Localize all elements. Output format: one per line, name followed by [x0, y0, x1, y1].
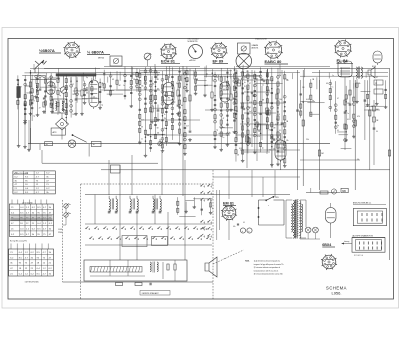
tube V4 body EABC80: [275, 140, 286, 162]
coil L1: [36, 85, 37, 92]
svg-text:25: 25: [269, 130, 271, 132]
svg-text:Ru Oqr Wu LL wq rPm: Ru Oqr Wu LL wq rPm: [10, 240, 27, 243]
svg-text:68: 68: [237, 155, 239, 157]
capacitor C7: [75, 99, 78, 100]
svg-text:LAUTSPR GRAMMOFON: LAUTSPR GRAMMOFON: [352, 234, 374, 237]
rectifier tube side view (top right): [372, 51, 382, 68]
svg-text:380: 380: [342, 190, 347, 193]
components detector region: [236, 78, 283, 143]
table coil data title: [22, 201, 33, 204]
wires detector cluster: [213, 66, 238, 151]
tuning gang C5: [60, 86, 67, 100]
wire r5 top: [76, 75, 82, 90]
box on lower bus: [111, 165, 121, 173]
svg-text:4n7: 4n7: [141, 119, 144, 121]
resistor R2: [29, 100, 31, 105]
svg-text:1n: 1n: [133, 73, 135, 75]
svg-text:120: 120: [302, 87, 305, 89]
wire hlines right of IF strip: [213, 170, 300, 197]
table coil ticks: [12, 200, 47, 205]
tube V4 EABC80 top view: [264, 41, 283, 60]
svg-text:0.1: 0.1: [347, 119, 349, 121]
ground G12: [188, 138, 192, 141]
capacitor C2: [24, 104, 27, 105]
grid cap C4: [43, 98, 45, 99]
power transformer primary: [291, 201, 294, 239]
svg-text:10k: 10k: [133, 79, 136, 81]
electrolytic dark blob left: [17, 80, 21, 147]
resistor R6: [81, 90, 83, 96]
ground G14: [229, 108, 233, 111]
wire em81: [217, 190, 229, 240]
svg-text:220: 220: [238, 83, 241, 85]
tube label half 6B07A (left): [39, 48, 61, 53]
wire c8: [157, 105, 159, 119]
IF amp tube V3 body: [220, 82, 230, 104]
svg-text:4.7k: 4.7k: [257, 136, 260, 138]
svg-text:0.1: 0.1: [157, 79, 159, 81]
svg-text:120: 120: [244, 77, 247, 79]
socket panel title 1: [353, 202, 386, 205]
wire lower bus 2: [101, 169, 390, 171]
svg-text:5p: 5p: [176, 83, 178, 85]
crystal pickup box M8700: [98, 56, 122, 66]
ground G1: [29, 112, 33, 115]
wire risers body to IF strip: [109, 152, 185, 195]
svg-text:220: 220: [240, 143, 243, 145]
svg-text:ECH 81: ECH 81: [161, 59, 176, 64]
wire long vertical B: [302, 70, 304, 186]
el84 screen chain: [349, 80, 352, 120]
tube label half 6B07A (right): [87, 50, 110, 55]
tube V7 6BX4 top view: [321, 254, 337, 270]
resistor R4: [51, 100, 53, 105]
wire v1a anode: [51, 78, 60, 82]
ground G9: [150, 120, 154, 123]
svg-text:25: 25: [273, 149, 275, 151]
volume pot P2: [64, 203, 71, 208]
table coil legend: [10, 240, 27, 243]
table alignment ticks: [11, 244, 48, 250]
resistor R18: [388, 150, 390, 156]
svg-text:10k: 10k: [26, 93, 29, 95]
wire center vertical 1: [154, 64, 156, 76]
padder diamond: [56, 118, 69, 130]
svg-text:L956.: L956.: [331, 291, 341, 296]
svg-text:68: 68: [141, 126, 143, 128]
svg-text:25k: 25k: [306, 139, 309, 141]
svg-text:FERRITE STAB ANT: FERRITE STAB ANT: [142, 292, 160, 295]
mains dots: [258, 207, 259, 217]
wire center vertical long: [182, 66, 184, 196]
svg-text:heizung: heizung: [344, 241, 349, 243]
socket panel 2: [352, 238, 385, 253]
wires RF input cluster: [17, 73, 68, 124]
value label right: [306, 99, 309, 141]
wire ech81 anode: [168, 76, 170, 83]
band switch contacts row 1: [86, 226, 207, 229]
ground G10: [156, 118, 160, 121]
title SCHEMA L956: [326, 286, 347, 296]
wire lower-left bus: [42, 150, 158, 163]
ground G13: [210, 108, 214, 111]
svg-text:1n: 1n: [223, 137, 225, 139]
wires meter drop cluster: [185, 67, 213, 97]
resistor R13: [230, 94, 232, 100]
el84 cathode chain: [344, 96, 350, 150]
mixer grid components: [84, 89, 87, 92]
table coil data dense rows: [10, 216, 52, 221]
svg-text:aMNTvX: aMNTvX: [189, 60, 196, 62]
wire v4: [280, 133, 282, 170]
tube V2 body ECH81: [163, 83, 174, 107]
box above mid bus: [51, 128, 65, 135]
wire osc link: [63, 76, 65, 87]
svg-text:1n: 1n: [347, 113, 349, 115]
svg-text:10k: 10k: [279, 99, 282, 101]
wires mixer cluster: [70, 77, 104, 118]
svg-text:0.05: 0.05: [306, 99, 309, 101]
svg-text:1n: 1n: [332, 86, 334, 88]
svg-text:EF 89: EF 89: [213, 59, 224, 64]
tone pot P3: [64, 212, 71, 217]
IF transformer T1: [108, 196, 118, 213]
rectifier circle symbol: [331, 189, 336, 194]
svg-text:120: 120: [52, 87, 55, 89]
resistor R14: [318, 150, 324, 156]
right column chain: [373, 100, 379, 165]
wires IF stage cluster: [138, 66, 189, 157]
wire drop left to bus: [31, 128, 50, 150]
ground G5: [50, 110, 54, 113]
tube V2 ECH81 top view: [160, 43, 177, 60]
box on mid bus: [92, 141, 102, 146]
svg-text:50: 50: [376, 131, 378, 133]
speaker: [368, 67, 375, 78]
band switch contacts row 2: [90, 236, 211, 239]
wire stubs top area: [34, 64, 366, 89]
tube label ECH 81: [161, 59, 180, 64]
antenna: [35, 60, 47, 73]
ground G2: [23, 121, 27, 124]
table alignment: [9, 249, 54, 276]
value labels right col: [357, 106, 373, 161]
node left rail: [30, 72, 31, 73]
IF transformer T3: [152, 196, 162, 213]
svg-text:5p: 5p: [212, 208, 214, 210]
table voltages: [13, 171, 55, 194]
note text block: [245, 260, 284, 276]
labels near pots: [58, 229, 63, 234]
capacitor C8: [157, 110, 160, 111]
wires bandswitch upper cluster: [103, 66, 138, 107]
svg-text:10k: 10k: [86, 93, 89, 95]
resistor R5: [75, 88, 77, 94]
band switch contacts right column: [201, 184, 212, 237]
resistor R1: [29, 82, 31, 87]
svg-text:47: 47: [223, 118, 225, 120]
tuning meter dial: [189, 45, 203, 63]
svg-text:M8700: M8700: [98, 58, 105, 60]
power transformer core: [294, 199, 298, 238]
scattered value labels: [47, 71, 378, 87]
phono socket box: [238, 43, 259, 54]
wire r8 rail: [151, 76, 153, 120]
wire IF mid rail: [85, 224, 212, 245]
svg-text:4n7: 4n7: [157, 89, 160, 91]
svg-text:5p: 5p: [312, 100, 314, 102]
caption under ferrite: [140, 291, 170, 296]
svg-text:EABC 80: EABC 80: [265, 59, 283, 64]
dashed boundary: [63, 170, 214, 299]
tube V1 6B07A top view: [63, 41, 80, 58]
wire IF verticals: [95, 195, 185, 261]
svg-text:5p: 5p: [216, 130, 218, 132]
svg-text:47: 47: [58, 79, 60, 81]
svg-text:ANSCHL: ANSCHL: [252, 47, 259, 50]
tube V5 body EL84: [338, 61, 352, 77]
svg-text:4n7: 4n7: [249, 111, 252, 113]
wire long vertical C: [319, 70, 321, 190]
tube V1b pentode section: [89, 80, 99, 109]
ground G7: [74, 112, 78, 115]
power transformer secondary: [299, 201, 302, 239]
wire IF strip top rail: [85, 194, 290, 196]
mains loop: [259, 200, 285, 225]
wire bottom bus: [63, 281, 214, 283]
annotation top right: [255, 38, 267, 41]
svg-text:hc: hc: [69, 204, 71, 206]
top right small boxes: [374, 80, 383, 94]
svg-text:68: 68: [326, 83, 328, 85]
wires far right cluster: [355, 79, 387, 110]
wire v3 wires: [212, 76, 231, 108]
svg-text:47: 47: [39, 107, 41, 109]
wire el84: [344, 61, 346, 96]
wire far right rail: [389, 69, 391, 260]
wire left rail: [30, 70, 32, 149]
svg-text:10k: 10k: [286, 140, 289, 142]
resistor R11: [189, 95, 191, 101]
svg-text:1n: 1n: [59, 112, 61, 114]
svg-text:47: 47: [337, 98, 339, 100]
svg-text:47: 47: [256, 79, 258, 81]
ferrite coils inside: [150, 260, 176, 281]
lamp on mid bus: [68, 140, 76, 148]
svg-text:10k: 10k: [141, 85, 144, 87]
schematic border frame: [8, 39, 394, 300]
wire top bus 1: [44, 68, 390, 70]
svg-text:5p: 5p: [86, 77, 88, 79]
IF transformer T2: [129, 196, 139, 213]
svg-text:47n: 47n: [233, 226, 236, 228]
wire 6bx4: [330, 203, 332, 238]
tube label EABC 80: [265, 59, 289, 64]
wires IF strip right cluster: [177, 197, 214, 216]
svg-text:10k: 10k: [152, 84, 155, 86]
svg-text:4n7: 4n7: [181, 105, 184, 107]
left rail bottom: [23, 100, 31, 151]
label EM 81: [223, 202, 236, 206]
svg-text:5p: 5p: [101, 105, 103, 107]
svg-text:EM 81: EM 81: [223, 202, 234, 206]
wire long vertical A: [297, 70, 299, 190]
svg-text:1n: 1n: [164, 114, 166, 116]
wire center vertical 2: [189, 69, 191, 130]
wire chassis step: [81, 144, 89, 157]
svg-text:470: 470: [357, 116, 360, 118]
svg-text:0.1: 0.1: [266, 75, 268, 77]
table coil data: [9, 204, 53, 236]
svg-text:uWr 9M wPrtchMx: uWr 9M wPrtchMx: [25, 280, 39, 283]
svg-text:0.1: 0.1: [279, 130, 281, 132]
switch group box 2: [152, 237, 168, 246]
terminal circles antenna: [35, 75, 45, 77]
resistor R8: [151, 95, 153, 101]
tube V5 EL84 top view: [334, 40, 352, 58]
svg-text:ANSCHLUSSE AB xxL: ANSCHLUSSE AB xxL: [353, 202, 371, 205]
electrolytic capacitors: [240, 228, 252, 233]
svg-text:1n: 1n: [123, 85, 125, 87]
arrow to 6BX4: [342, 241, 353, 245]
label 6BX4: [322, 243, 335, 247]
wire horizontal ties: [30, 67, 388, 161]
resistor R12: [211, 92, 213, 98]
annotation above meter: [188, 38, 199, 43]
mains switch: [266, 196, 275, 201]
svg-text:0.1: 0.1: [243, 222, 245, 224]
wire diamond: [61, 113, 63, 140]
oscillator coil box: [53, 99, 67, 113]
switch S1: [72, 134, 87, 142]
value labels detector region: [238, 83, 280, 150]
ground G6: [62, 108, 66, 111]
svg-text:6k8: 6k8: [376, 109, 379, 111]
tube label EF 89: [213, 59, 229, 64]
svg-text:NORM MITTE: NORM MITTE: [188, 41, 198, 43]
svg-text:47: 47: [144, 83, 146, 85]
wire hv line: [306, 188, 340, 193]
tube V6 EM81 top view: [221, 205, 237, 221]
svg-text:25: 25: [52, 108, 54, 110]
svg-text:GRAMM: GRAMM: [252, 44, 259, 47]
capacitor C3: [39, 89, 42, 90]
wire mesh detector region: [236, 70, 284, 168]
svg-text:1n: 1n: [206, 74, 208, 76]
capacitor C11: [296, 110, 299, 111]
ferrite rod: [90, 267, 142, 273]
power transformer leads: [286, 200, 306, 238]
wires output cluster: [334, 81, 355, 149]
wires driver cluster: [300, 79, 334, 120]
svg-text:1n: 1n: [141, 138, 143, 140]
wire antenna drop: [36, 78, 40, 88]
resistor R10: [177, 90, 179, 96]
wire v1a cathode: [51, 96, 53, 110]
pilot lamps: [305, 227, 318, 233]
resistor R19 hv: [320, 191, 328, 194]
svg-text:4.7k: 4.7k: [249, 102, 252, 104]
svg-text:N.B.: N.B.: [245, 261, 250, 263]
wires AF cluster: [235, 67, 289, 167]
resistor R3: [43, 102, 45, 107]
svg-text:10k: 10k: [358, 83, 361, 85]
resistor R16: [354, 120, 356, 126]
svg-text:47: 47: [249, 83, 251, 85]
svg-text:10k: 10k: [47, 78, 50, 80]
svg-text:½ 6B07A: ½ 6B07A: [87, 50, 104, 55]
svg-text:5p: 5p: [59, 95, 61, 97]
wire top bus 3: [31, 79, 57, 81]
svg-text:1n: 1n: [332, 75, 334, 77]
potentiometer P1: [158, 139, 163, 146]
svg-text:aWNrd SVuFnnM: aWNrd SVuFnnM: [14, 173, 29, 175]
tuning gang symbol: [144, 53, 151, 66]
socket panel 1: [353, 209, 386, 226]
svg-text:6BX4: 6BX4: [322, 243, 331, 247]
trimmer C6: [62, 101, 65, 108]
svg-text:5p: 5p: [286, 79, 288, 81]
output transformer T-out: [356, 67, 362, 79]
tube label EL 84: [337, 58, 354, 63]
speaker cone bottom: [205, 257, 217, 282]
svg-text:0.1: 0.1: [262, 84, 264, 86]
svg-text:½6B07A: ½6B07A: [39, 48, 55, 53]
capacitor C12: [364, 100, 367, 101]
capacitor C9: [177, 105, 180, 106]
capacitor C1: [29, 92, 32, 93]
wire r5 drop: [76, 94, 82, 112]
resistor R15: [302, 120, 304, 126]
label box 380: [341, 188, 348, 193]
capacitor C10: [189, 131, 192, 132]
wire right column: [355, 76, 370, 190]
table alignment title: [25, 280, 39, 283]
svg-text:68: 68: [112, 79, 114, 81]
svg-text:dn: dn: [69, 213, 71, 215]
wire left branch: [25, 86, 31, 120]
wire pot drops: [63, 208, 67, 225]
svg-text:5p: 5p: [33, 116, 35, 118]
coil box (dark band): [56, 74, 232, 77]
ground G11: [176, 112, 180, 115]
wire v1b anode: [93, 76, 95, 80]
svg-text:0.1: 0.1: [223, 89, 225, 91]
svg-text:1n: 1n: [216, 77, 218, 79]
svg-text:47: 47: [33, 101, 35, 103]
svg-text:1n: 1n: [59, 88, 61, 90]
wire v3 anode: [224, 76, 226, 82]
wire inside ferrite box: [90, 260, 145, 276]
ground G8: [80, 112, 84, 115]
wire r10: [177, 76, 179, 104]
svg-text:5p: 5p: [262, 147, 264, 149]
components below ferrite box: [116, 283, 152, 286]
resistor R9: [151, 106, 153, 112]
svg-text:1n: 1n: [244, 82, 246, 84]
svg-text:3 7 0 4 1 5 0: 3 7 0 4 1 5 0: [354, 255, 363, 257]
svg-text:68: 68: [206, 85, 208, 87]
svg-text:25: 25: [244, 86, 246, 88]
svg-text:10k: 10k: [72, 114, 75, 116]
tube V7 body 6BX4: [326, 208, 337, 226]
dial lamp symbol: [236, 53, 252, 69]
resistor R17: [369, 110, 371, 116]
svg-text:47: 47: [376, 77, 378, 79]
em81 small parts: [233, 222, 245, 228]
ground G3: [34, 95, 38, 98]
tube V3 EF89 top view: [210, 42, 227, 59]
